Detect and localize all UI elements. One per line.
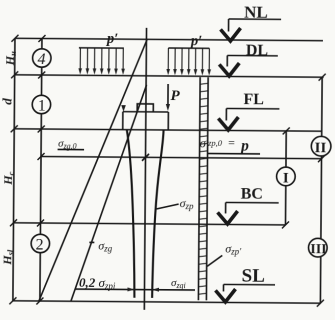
layer-number leader line (x=41) xyxy=(41,39,43,49)
svg-text:Hн: Hн xyxy=(3,51,18,66)
svg-text:III: III xyxy=(310,242,326,257)
svg-text:σzp: σzp xyxy=(180,196,195,211)
distributed load p' right: top line xyxy=(168,47,209,49)
svg-text:P: P xyxy=(170,88,180,104)
svg-text:σzg,0: σzg,0 xyxy=(58,138,77,151)
bottom leader with arrows xyxy=(129,289,195,292)
label 0,2 sigma underline xyxy=(75,288,129,290)
svg-text:BC: BC xyxy=(241,186,263,203)
sigma-zp right curve xyxy=(152,130,163,298)
p' right arrows xyxy=(168,48,209,70)
central axis xyxy=(144,28,146,310)
sigma-zg diagonal A xyxy=(39,39,147,302)
leader sigma-zp xyxy=(157,204,179,209)
foundation top-left end mark xyxy=(121,105,126,112)
left dim ticks xyxy=(9,35,18,305)
NL level line xyxy=(15,38,323,40)
foundation top line xyxy=(123,111,168,113)
label sigma-zg0 underline xyxy=(58,148,84,150)
SL callout xyxy=(224,283,275,285)
svg-text:σ: σ xyxy=(200,135,207,150)
sigma-zp0 level line xyxy=(41,157,321,159)
foundation left side xyxy=(122,112,124,130)
FL callout xyxy=(226,107,279,109)
svg-text:zp,0: zp,0 xyxy=(207,138,223,148)
svg-text:I: I xyxy=(283,170,289,186)
SL bottom level line xyxy=(13,301,321,303)
left dimension line xyxy=(13,38,15,300)
svg-text:SL: SL xyxy=(242,266,265,287)
svg-text:σzg: σzg xyxy=(98,238,113,253)
svg-text:Hsl: Hsl xyxy=(0,249,15,266)
circle I xyxy=(277,167,296,186)
svg-text:p′: p′ xyxy=(105,31,118,47)
circle II xyxy=(311,136,331,156)
dimension line II-III (x=321.5) xyxy=(321,77,323,135)
label sigma-zp0 underline xyxy=(207,153,260,155)
svg-text:NL: NL xyxy=(244,3,268,22)
circle 1 xyxy=(32,95,51,114)
tick axis/level xyxy=(142,154,149,161)
circle III xyxy=(308,238,327,257)
svg-text:σzgi: σzgi xyxy=(171,277,186,290)
svg-text:p′: p′ xyxy=(189,33,202,49)
sigma-zg diagonal B xyxy=(71,84,147,302)
svg-text:DL: DL xyxy=(246,42,268,59)
svg-text:d: d xyxy=(0,98,14,105)
svg-text:=: = xyxy=(228,135,235,149)
svg-text:4: 4 xyxy=(38,51,46,68)
leader sigma-zg xyxy=(89,241,94,243)
foundation cap xyxy=(137,104,153,112)
svg-text:σzp′: σzp′ xyxy=(225,241,242,256)
sigma-zp left curve xyxy=(126,130,136,298)
DL level line xyxy=(15,75,324,77)
ticks on x=41 line xyxy=(36,35,45,305)
svg-text:1: 1 xyxy=(38,97,46,114)
sigma-zp' hatched column (ladder) xyxy=(198,77,200,300)
DL callout xyxy=(227,54,277,56)
svg-text:II: II xyxy=(315,140,327,156)
svg-text:Hc: Hc xyxy=(1,171,16,185)
dimension line I (x=286) xyxy=(285,131,287,167)
svg-text:FL: FL xyxy=(243,91,264,108)
foundation right side xyxy=(167,112,169,130)
circle 2 xyxy=(31,234,50,253)
force P arrow xyxy=(167,84,169,105)
svg-text:2: 2 xyxy=(36,236,44,253)
BC callout xyxy=(226,201,279,203)
BC level line xyxy=(14,223,286,225)
svg-text:p: p xyxy=(239,138,249,155)
circle 4 xyxy=(33,49,52,68)
p' left arrows xyxy=(80,48,123,70)
leader sigma-zp' xyxy=(207,255,222,266)
NL callout xyxy=(229,18,281,20)
svg-text:0,2 σzpi: 0,2 σzpi xyxy=(79,275,116,291)
FL level line xyxy=(14,129,322,131)
distributed load p' left: top line xyxy=(79,47,124,49)
